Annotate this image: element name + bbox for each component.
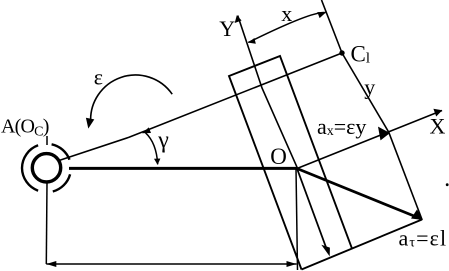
svg-text:A(OC): A(OC) [1, 115, 49, 139]
extension line above C_i [322, 0, 343, 53]
svg-text:Y: Y [219, 16, 235, 41]
svg-text:O: O [270, 144, 287, 169]
pivot A hinge circle [32, 154, 60, 182]
extension line below O [296, 169, 298, 271]
vector a_x arrowhead on X axis [378, 127, 390, 141]
svg-text:x: x [281, 1, 292, 26]
axis Y [238, 16, 298, 169]
wire: parallelogram side down to a_tau tip [389, 132, 422, 219]
rod (rotated strip) [229, 56, 352, 270]
svg-text:X: X [430, 114, 446, 139]
axis X [297, 111, 442, 169]
leader tick from label A [46, 136, 48, 145]
svg-text:aτ=εl: aτ=εl [399, 225, 448, 250]
pivot A bearing arcs [22, 144, 70, 191]
angle arc gamma [146, 133, 158, 165]
point C_i [339, 50, 344, 55]
wire: slant base line through rod bottom to a_tau point [302, 220, 423, 270]
extension line below pivot A [45, 183, 48, 264]
wire: y line C_i down to X axis [342, 53, 389, 132]
angular acceleration arc epsilon [91, 75, 173, 122]
svg-text:Cl: Cl [351, 42, 371, 67]
svg-text:ε: ε [94, 64, 103, 89]
speck dot right lower [446, 183, 449, 186]
svg-text:γ: γ [157, 127, 169, 153]
vector a_tau (thick) [297, 169, 419, 219]
dimension line A-O (bottom) [46, 263, 296, 265]
vector a_y (component along rod) [297, 169, 327, 251]
wire: thick horizontal line A to O [69, 167, 297, 170]
svg-text:y: y [364, 74, 375, 99]
wire: thin line A to C_i [59, 53, 342, 161]
svg-text:ax=εy: ax=εy [317, 114, 366, 139]
dimension x [248, 12, 325, 42]
